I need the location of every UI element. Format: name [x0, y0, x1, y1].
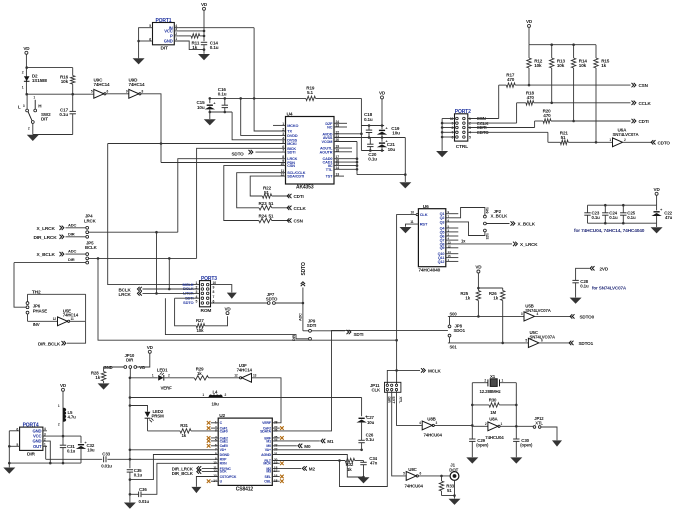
svg-text:0.1u: 0.1u: [368, 157, 377, 162]
capacitor C31 0.1u: [62, 436, 64, 445]
pin stub ERF (nc): [272, 437, 279, 439]
svg-text:51: 51: [447, 488, 452, 493]
net DIR_BCLK out: [67, 321, 86, 343]
svg-text:74HCU04: 74HCU04: [424, 433, 443, 438]
wire: [33, 134, 73, 136]
wire bus: [129, 378, 131, 469]
ground: [656, 223, 658, 227]
svg-text:51: 51: [561, 135, 566, 140]
svg-text:DGND: DGND: [220, 453, 230, 457]
svg-text:10u: 10u: [212, 402, 220, 407]
pin stub MCK (nc): [272, 462, 279, 464]
svg-text:11: 11: [71, 317, 74, 321]
pin stub DZF: [334, 122, 347, 124]
svg-text:1k: 1k: [95, 375, 100, 380]
svg-text:CaF0: CaF0: [220, 429, 228, 433]
svg-text:74HCU04: 74HCU04: [405, 483, 424, 488]
pin stub Q7: [446, 239, 459, 241]
pin stub Q6: [446, 235, 459, 237]
svg-text:SDTI: SDTI: [354, 332, 364, 337]
net SDTI out: [311, 330, 345, 332]
capacitor C17 0.1u: [72, 94, 74, 111]
svg-text:10u: 10u: [367, 420, 375, 425]
svg-text:51: 51: [264, 190, 269, 195]
pin stub CaF1 (nc): [211, 427, 218, 429]
wire TTL: [334, 168, 357, 170]
connector PORT3 ROM: [200, 281, 211, 307]
svg-text:SDTO: SDTO: [232, 151, 245, 156]
wire DGND row: [130, 455, 218, 480]
wire DVSS: [232, 112, 285, 140]
wire BCLK to PORT3: [168, 258, 170, 289]
wire: [26, 94, 28, 109]
svg-text:X_BCLK: X_BCLK: [491, 214, 509, 219]
svg-text:MCLK: MCLK: [428, 368, 442, 373]
counter U6 74HC4040: [418, 209, 445, 267]
connector PORT1 DIT: [153, 23, 175, 45]
svg-text:ROM: ROM: [201, 308, 212, 314]
pin stub CaE1 (nc): [211, 440, 218, 442]
svg-text:CDTO: CDTO: [658, 140, 671, 145]
svg-text:3: 3: [44, 432, 46, 436]
ground: [198, 54, 210, 60]
wire to JP9: [302, 303, 304, 331]
wire AVDD rail: [360, 98, 362, 150]
svg-text:47u: 47u: [665, 215, 673, 220]
svg-text:DIR: DIR: [68, 231, 75, 236]
svg-text:1M: 1M: [490, 410, 496, 415]
wire MCLK drop to PORT3: [108, 144, 200, 285]
pin stub Q1: [446, 213, 459, 215]
svg-text:CDTI: CDTI: [639, 119, 649, 124]
ground: [552, 440, 562, 446]
svg-text:4: 4: [44, 427, 46, 431]
svg-text:0.1u: 0.1u: [67, 449, 76, 454]
resistor R19 5.1: [306, 96, 316, 100]
svg-text:GND: GND: [33, 428, 42, 433]
pin stub CaE0 (nc): [211, 445, 218, 447]
wire pin13 ground: [196, 477, 218, 487]
wire IIC: [334, 165, 357, 167]
svg-text:INV: INV: [33, 322, 40, 327]
svg-text:BCLK: BCLK: [85, 245, 98, 250]
svg-text:0.1u: 0.1u: [59, 112, 68, 117]
capacitor C14 0.1u: [201, 41, 207, 43]
svg-text:L4: L4: [213, 390, 219, 395]
svg-text:U4: U4: [287, 112, 293, 118]
wire VERF to pin28: [252, 378, 282, 423]
net SDTO1 out: [571, 341, 573, 345]
svg-text:CLK: CLK: [420, 212, 428, 217]
ground: [227, 293, 237, 299]
svg-text:10k: 10k: [557, 63, 565, 68]
wire PORT2 right row4: [468, 131, 548, 133]
svg-text:SDTI: SDTI: [287, 151, 295, 155]
wire GND pin: [174, 41, 204, 50]
capacitor C21 10u: [381, 138, 383, 142]
resistor R11 1k: [191, 34, 200, 38]
svg-text:Q12: Q12: [438, 260, 445, 264]
svg-text:CBL: CBL: [264, 480, 272, 484]
svg-text:5: 5: [469, 135, 471, 139]
resistor R32 1k FILT: [272, 460, 345, 462]
svg-text:12: 12: [234, 373, 238, 377]
capacitor C23 0.1u: [587, 205, 589, 213]
svg-text:PORT1: PORT1: [156, 18, 172, 24]
svg-text:10k: 10k: [61, 79, 69, 84]
wire VCC rail: [47, 435, 81, 437]
svg-text:VERF: VERF: [161, 385, 173, 390]
wire: [478, 287, 502, 289]
svg-text:VD: VD: [139, 365, 145, 370]
wire RST to ground: [406, 224, 419, 227]
svg-text:0.1u: 0.1u: [609, 215, 618, 220]
svg-text:DVDD: DVDD: [287, 134, 298, 138]
svg-text:PHASE: PHASE: [33, 308, 48, 313]
wire CAD0: [334, 158, 357, 160]
pin stub U (nc): [211, 480, 218, 482]
svg-text:U6: U6: [423, 204, 429, 210]
svg-text:M3: M3: [266, 470, 271, 474]
svg-text:U8A: U8A: [489, 416, 498, 421]
wire PORT4 left: [9, 430, 19, 432]
resistor R16 10k: [72, 68, 74, 76]
ground: [358, 477, 370, 483]
ground: [570, 298, 582, 304]
wire: [27, 67, 73, 69]
svg-text:PORT4: PORT4: [23, 422, 39, 428]
wire: [449, 316, 451, 325]
svg-text:SDATA: SDATA: [260, 429, 271, 433]
svg-text:ADC: ADC: [299, 313, 303, 321]
svg-text:2: 2: [44, 437, 46, 441]
svg-text:R24: R24: [259, 214, 268, 219]
svg-text:0.1u: 0.1u: [366, 437, 375, 442]
wire Q3 to jumper: [446, 222, 485, 236]
wire DIR column: [340, 391, 388, 487]
capacitor C18 0.1u: [368, 126, 370, 131]
svg-text:0.01u: 0.01u: [139, 499, 150, 504]
svg-text:X_LRCK: X_LRCK: [520, 242, 538, 247]
svg-text:VERF: VERF: [262, 421, 272, 425]
wire IN: [178, 27, 254, 29]
wire DIR clock drop: [98, 258, 397, 340]
svg-text:51: 51: [269, 201, 274, 206]
capacitor C35 0.1u: [127, 469, 133, 471]
svg-text:3: 3: [282, 132, 284, 136]
pin stub Q10: [446, 253, 459, 255]
jumper JP11 CLK: [385, 382, 401, 392]
svg-text:10k: 10k: [197, 328, 205, 333]
capacitor C30 (open): [515, 426, 517, 439]
wire: [106, 93, 129, 95]
svg-text:470: 470: [543, 113, 551, 118]
wire: [500, 425, 516, 427]
svg-text:13: 13: [253, 373, 257, 377]
svg-text:VD: VD: [654, 187, 661, 192]
ground: [209, 112, 211, 119]
ground: [510, 457, 522, 463]
wire rail: [529, 44, 596, 46]
net CDTI out: [632, 119, 634, 123]
svg-text:470: 470: [507, 77, 515, 82]
ground: [98, 383, 110, 389]
capacitor C27 10u: [359, 417, 365, 419]
svg-text:RXN: RXN: [220, 462, 228, 466]
svg-text:R23: R23: [259, 201, 268, 206]
wire AVDD: [334, 133, 361, 135]
svg-text:GND: GND: [164, 39, 173, 44]
pin stub CBL (nc): [272, 480, 279, 482]
svg-text:DIR_BCLK: DIR_BCLK: [38, 341, 61, 346]
wire DVDD: [241, 98, 286, 135]
wire ground rail: [9, 462, 81, 464]
svg-text:VD: VD: [60, 383, 67, 388]
wire CLK from MCLK net: [397, 215, 417, 385]
wire CSN riser: [498, 85, 500, 118]
svg-text:DIR_LRCK: DIR_LRCK: [34, 235, 58, 241]
wire Q2 to jumper: [446, 208, 485, 218]
svg-text:L: L: [18, 105, 21, 110]
svg-text:1k: 1k: [197, 371, 202, 376]
wire TX from PORT1: [254, 28, 285, 131]
wire OUT: [46, 446, 47, 459]
svg-text:1k: 1k: [465, 296, 470, 301]
svg-text:DIR: DIR: [387, 397, 391, 403]
svg-text:CS8412: CS8412: [236, 486, 254, 492]
svg-text:M1: M1: [266, 439, 271, 443]
svg-text:10u: 10u: [197, 105, 205, 110]
wire: [210, 111, 232, 113]
svg-text:CSN: CSN: [294, 219, 304, 224]
svg-text:11: 11: [410, 220, 414, 224]
diode D2 1S1588: [24, 76, 30, 81]
svg-text:0.01u: 0.01u: [101, 464, 112, 469]
ground: [133, 58, 145, 64]
svg-text:12.288MHz: 12.288MHz: [480, 389, 502, 394]
ground: [191, 487, 201, 493]
svg-text:10: 10: [411, 210, 415, 214]
resistor R25 1k: [477, 288, 479, 291]
svg-text:47n: 47n: [370, 461, 378, 466]
wire GND2: [47, 441, 50, 463]
wire PORT3 right ground: [211, 285, 232, 293]
svg-text:PRSM: PRSM: [152, 413, 165, 418]
wire: [275, 302, 303, 304]
switch SW2 DIT: [26, 109, 29, 112]
pin stub Q11: [446, 257, 459, 259]
jumper JP6 PHASE: [26, 302, 29, 305]
wire: [25, 54, 27, 94]
wire JP10 common: [129, 368, 131, 377]
resistor R27 10k pullup: [175, 298, 197, 326]
svg-text:S01: S01: [450, 344, 458, 349]
svg-text:CDTI: CDTI: [294, 194, 304, 199]
svg-text:CLK: CLK: [372, 387, 382, 392]
wire PORT2 right row3: [468, 127, 535, 129]
net MCLK out: [387, 370, 420, 384]
pin stub Q12: [446, 260, 459, 262]
svg-text:SCK: SCK: [220, 470, 228, 474]
svg-text:LED1: LED1: [157, 368, 168, 373]
wire RXN row: [142, 463, 219, 494]
svg-text:R30: R30: [489, 398, 497, 403]
svg-text:8: 8: [213, 290, 215, 294]
svg-text:SDA/CDTI: SDA/CDTI: [287, 175, 304, 179]
svg-text:SEL: SEL: [265, 475, 272, 479]
net M1: [272, 440, 320, 442]
svg-text:ADC: ADC: [68, 222, 76, 227]
resistor R13 10k: [551, 45, 553, 58]
svg-text:C33: C33: [102, 451, 110, 456]
wire VD+ row: [130, 449, 218, 451]
wire PORT1 left to ground: [139, 28, 153, 59]
svg-text:RST: RST: [420, 222, 428, 227]
resistor R15 1k: [595, 45, 597, 58]
svg-text:7: 7: [213, 295, 215, 299]
wire: [70, 320, 86, 322]
wire: [442, 495, 455, 497]
net CSN out: [632, 83, 634, 87]
svg-text:VD: VD: [147, 345, 154, 350]
wire CDTI riser: [534, 121, 536, 128]
wire: [32, 124, 34, 135]
svg-text:for 74HCU04, 74HC14, 74HC4040: for 74HCU04, 74HC14, 74HC4040: [574, 228, 645, 234]
svg-text:12: 12: [213, 469, 217, 473]
wire CAD1: [334, 161, 357, 163]
svg-text:X_LRCK: X_LRCK: [37, 226, 56, 232]
svg-text:12: 12: [53, 317, 57, 321]
resistor R14 10k: [573, 45, 575, 58]
svg-text:AGND: AGND: [261, 453, 271, 457]
svg-text:MCKI: MCKI: [287, 142, 296, 146]
wire CCLK riser: [516, 103, 518, 123]
capacitor C24 0.1u: [604, 205, 606, 213]
svg-text:GND: GND: [104, 365, 113, 370]
svg-text:SDTI: SDTI: [307, 323, 316, 328]
svg-text:DIT: DIT: [161, 46, 168, 52]
connector PORT4 DIR: [20, 427, 43, 450]
svg-text:LRCK: LRCK: [84, 218, 97, 223]
svg-text:OUT: OUT: [33, 444, 42, 449]
net SDTO0 out: [572, 314, 574, 318]
svg-text:CTRL: CTRL: [456, 144, 468, 150]
svg-text:1k: 1k: [601, 63, 606, 68]
wire: [528, 28, 530, 45]
svg-text:U2: U2: [219, 413, 225, 419]
jumper JP2 X_BCLK: [484, 215, 487, 218]
svg-text:51: 51: [269, 214, 274, 219]
connector PORT2 CTRL: [455, 114, 468, 141]
svg-text:VD: VD: [201, 2, 208, 7]
ground: [3, 468, 15, 474]
svg-text:3: 3: [175, 27, 177, 31]
wire node: [27, 93, 94, 95]
svg-text:1k: 1k: [347, 467, 352, 472]
capacitor C19 10u: [381, 126, 383, 130]
svg-text:PORT2: PORT2: [455, 109, 471, 115]
svg-text:TX: TX: [287, 130, 292, 134]
svg-text:DIR: DIR: [292, 335, 296, 341]
ground: [466, 457, 478, 463]
svg-text:64fs: 64fs: [485, 207, 489, 213]
resistor R33 51: [441, 476, 443, 481]
capacitor C16 0.1u: [224, 98, 226, 105]
resistor R26 1k: [502, 288, 504, 291]
svg-text:(open): (open): [520, 443, 533, 448]
wire PDN: [161, 162, 286, 164]
wire P: [178, 35, 191, 37]
net M2: [272, 467, 301, 469]
capacitor C26 0.1u: [358, 439, 364, 441]
inductor L5 4.7u: [63, 408, 66, 422]
wire DIR net to TH2: [14, 263, 26, 308]
svg-text:SDTO: SDTO: [266, 297, 278, 302]
svg-text:SDTO0: SDTO0: [580, 314, 595, 319]
wire PORT2 right row2: [468, 122, 517, 124]
svg-text:SDTO1: SDTO1: [579, 341, 594, 346]
wire: [361, 150, 384, 152]
svg-text:C36: C36: [139, 487, 147, 492]
svg-text:CSTO/FCK: CSTO/FCK: [220, 475, 237, 479]
resistor R24 51 CSN: [224, 166, 286, 221]
wire: [28, 320, 58, 322]
svg-text:CCLK: CCLK: [294, 206, 307, 211]
svg-text:CSN: CSN: [639, 83, 649, 88]
svg-text:DIR: DIR: [27, 452, 35, 458]
svg-text:4.7u: 4.7u: [68, 415, 77, 420]
svg-text:DIR_BCLK: DIR_BCLK: [172, 471, 194, 476]
resistor R29 1k: [194, 376, 208, 380]
net CDTO in: [653, 140, 655, 144]
svg-text:Q3: Q3: [440, 220, 445, 224]
svg-text:0.1u: 0.1u: [218, 92, 227, 97]
wire JP4 common: [89, 231, 178, 233]
svg-text:VD: VD: [23, 46, 30, 51]
svg-text:SDTO: SDTO: [183, 300, 193, 305]
svg-text:TTL: TTL: [326, 168, 333, 172]
svg-text:VD+: VD+: [220, 448, 227, 452]
resistor R23 51 CCLK: [237, 173, 286, 208]
wire AVSS to ground: [334, 137, 405, 139]
capacitor C20 0.1u: [369, 138, 371, 145]
capacitor C29 (open): [471, 425, 473, 439]
wire SDTO row: [211, 302, 268, 304]
svg-text:10k: 10k: [579, 63, 587, 68]
transceiver U2 CS8412: [218, 418, 272, 485]
wire AGND: [272, 455, 363, 478]
resistor R31 1k: [147, 418, 149, 431]
svg-text:VD: VD: [224, 306, 231, 311]
resistor R28 1k: [104, 367, 124, 372]
svg-text:CCLK: CCLK: [639, 101, 652, 106]
ground: [436, 151, 448, 157]
wire JP5 common: [89, 257, 197, 259]
svg-text:1: 1: [22, 86, 24, 90]
svg-text:74HC4040: 74HC4040: [418, 268, 440, 274]
wire CDTO riser: [547, 132, 549, 142]
svg-text:for SN74LVC07A: for SN74LVC07A: [592, 285, 627, 290]
svg-text:AOUTR: AOUTR: [320, 150, 333, 154]
pin stub C (nc): [211, 422, 218, 424]
capacitor C36 0.01u: [130, 493, 139, 495]
wire Q8 X_LRCK out: [446, 243, 512, 245]
svg-text:CSN: CSN: [287, 164, 295, 168]
pin stub SEL (nc): [272, 476, 279, 478]
wire: [434, 424, 472, 426]
wire rail: [588, 222, 657, 224]
svg-text:VCOM: VCOM: [322, 140, 333, 144]
